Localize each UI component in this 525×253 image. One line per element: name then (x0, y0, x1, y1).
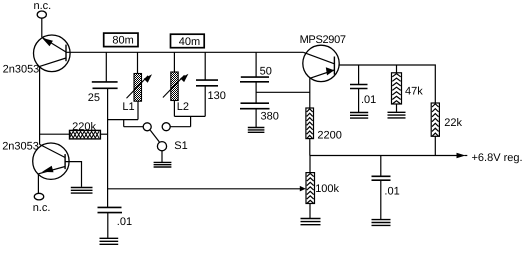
switch S1 (143, 123, 188, 152)
ground (under .01 top right) (350, 113, 368, 119)
ground (under .01 bottom left) (100, 238, 119, 244)
capacitor C 25 (88, 52, 118, 104)
wire: 2200 to +6.8V rail (309, 139, 311, 156)
wire: long wiper wire to 100k (108, 186, 306, 192)
svg-text:MPS2907: MPS2907 (300, 34, 346, 46)
ground (under switch) (154, 162, 172, 167)
resistor 220k (40, 121, 108, 139)
ground (under 100k) (301, 219, 321, 225)
band box 40m (171, 34, 205, 48)
capacitor C 380 (240, 82, 279, 127)
wire: Q3 down to 2200 (309, 78, 311, 108)
resistor 22k (431, 103, 462, 156)
svg-text:S1: S1 (174, 140, 187, 152)
resistor 47k (392, 65, 424, 112)
wire: Q1 collector down to Q2 (39, 66, 41, 144)
ground (under 380) (248, 128, 265, 133)
n.c. terminal (bottom) (33, 174, 51, 214)
wire: cap junction tap to Q3 collector rail (256, 91, 310, 93)
svg-text:n.c.: n.c. (33, 202, 51, 214)
svg-text:50: 50 (260, 65, 272, 77)
capacitor C .01 (bottom right) (372, 156, 400, 220)
svg-text:.01: .01 (361, 94, 376, 106)
wire: Q2 base to ground (65, 162, 81, 187)
n.c. terminal (top) (34, 0, 52, 37)
band box 80m (104, 33, 138, 47)
capacitor C .01 (top right) (350, 65, 376, 112)
ground (under 47k) (388, 112, 406, 118)
svg-text:2200: 2200 (317, 130, 341, 142)
svg-text:.01: .01 (117, 216, 132, 228)
svg-text:220k: 220k (72, 121, 96, 133)
svg-text:+6.8V reg.: +6.8V reg. (472, 152, 523, 164)
transistor Q1 2n3053 (top left) (34, 35, 71, 72)
svg-text:80m: 80m (112, 35, 133, 47)
capacitor C 130 (196, 52, 226, 102)
svg-text:100k: 100k (315, 183, 339, 195)
svg-text:2n3053: 2n3053 (3, 64, 40, 76)
ground (Q2 base) (71, 188, 93, 194)
transistor Q2 2n3053 (bottom left) (33, 143, 69, 179)
inductor L2 (variable) (163, 52, 189, 113)
svg-text:.01: .01 (384, 186, 399, 198)
wire: switch pole down (161, 151, 163, 162)
svg-text:L2: L2 (177, 101, 189, 113)
main bus wire (66, 51, 303, 53)
capacitor C 50 (240, 52, 272, 82)
capacitor C .01 (bottom left) (98, 207, 133, 238)
transistor Q3 MPS2907 (303, 45, 339, 81)
svg-text:L1: L1 (122, 101, 134, 113)
wire bracket under L2 and C130 (170, 86, 205, 127)
svg-text:n.c.: n.c. (34, 0, 52, 12)
ground (under .01 bottom right) (372, 220, 391, 226)
+6.8V reg. rail (310, 152, 523, 164)
svg-text:47k: 47k (405, 86, 423, 98)
svg-text:25: 25 (88, 92, 100, 104)
svg-text:22k: 22k (444, 117, 462, 129)
wire bracket under L1 to left rail (108, 101, 144, 127)
svg-text:40m: 40m (179, 36, 200, 48)
inductor L1 (variable) (122, 52, 152, 113)
svg-text:2n3053: 2n3053 (2, 141, 39, 153)
left rail x=107.6 (107, 88, 109, 207)
resistor 2200 (306, 108, 342, 142)
svg-text:130: 130 (208, 90, 226, 102)
resistor 100k (pot) (306, 156, 340, 219)
wire: Q3 base lead right and down to 22k (339, 65, 435, 103)
svg-text:380: 380 (261, 111, 279, 123)
